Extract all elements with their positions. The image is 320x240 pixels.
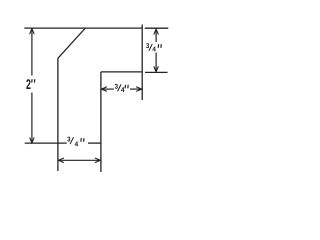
step bottom edge — [101, 71, 142, 73]
dimension 3/4" middle horizontal line — [102, 88, 141, 90]
profile top edge with left extension line — [24, 27, 142, 29]
inner vertical edge with lower extension — [100, 72, 102, 172]
dimension 2" vertical line — [31, 29, 33, 142]
dimension 3/4" bottom horizontal line — [59, 159, 100, 161]
dimension 2" label — [26, 79, 30, 89]
bottom edge right part — [88, 142, 101, 144]
bottom edge left part with left extension line — [25, 142, 67, 144]
dimension 2" arrowheads — [30, 29, 35, 143]
dimension 3/4" middle arrowheads — [101, 87, 141, 92]
profile right edge with top tick and lower extension — [141, 25, 143, 101]
dimension 3/4" top-right arrowheads — [154, 29, 159, 72]
dimension 3/4" bottom label — [67, 137, 84, 147]
dimension 3/4" middle label — [115, 84, 128, 92]
dimension 3/4" top-right label — [146, 43, 161, 51]
top-right extension line — [145, 27, 169, 29]
step right extension line — [145, 71, 168, 73]
chamfer — [58, 28, 85, 58]
dimension 3/4" bottom arrowheads — [58, 158, 100, 163]
dimension 3/4" top-right vertical line — [155, 30, 157, 71]
profile left edge with lower extension — [57, 58, 59, 171]
